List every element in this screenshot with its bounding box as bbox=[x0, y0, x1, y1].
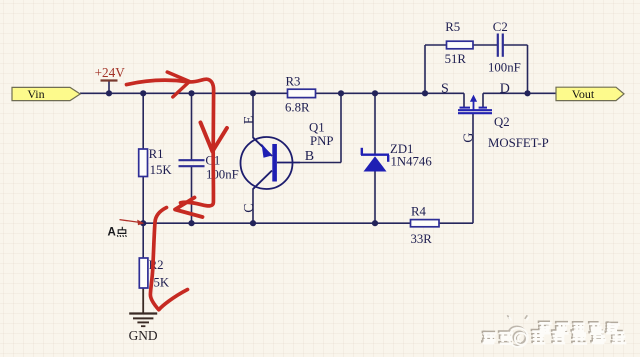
svg-text:+24V: +24V bbox=[95, 65, 126, 80]
svg-text:100nF: 100nF bbox=[488, 61, 521, 75]
svg-text:R1: R1 bbox=[149, 147, 164, 161]
svg-text:5K: 5K bbox=[154, 275, 170, 289]
svg-text:PNP: PNP bbox=[310, 134, 333, 148]
svg-text:D: D bbox=[500, 81, 510, 96]
svg-text:R4: R4 bbox=[411, 205, 427, 219]
svg-text:Vout: Vout bbox=[572, 87, 595, 101]
svg-text:GND: GND bbox=[129, 328, 158, 343]
svg-text:R5: R5 bbox=[445, 20, 460, 34]
svg-text:Q1: Q1 bbox=[309, 121, 325, 135]
svg-text:6.8R: 6.8R bbox=[285, 100, 310, 114]
svg-text:C2: C2 bbox=[493, 20, 508, 34]
svg-text:G: G bbox=[462, 133, 477, 143]
svg-text:S: S bbox=[441, 81, 449, 96]
svg-text:15K: 15K bbox=[150, 163, 173, 177]
svg-text:33R: 33R bbox=[411, 232, 433, 246]
svg-text:Q2: Q2 bbox=[494, 115, 510, 129]
svg-text:Vin: Vin bbox=[27, 87, 44, 101]
svg-text:C: C bbox=[242, 203, 257, 212]
svg-text:100nF: 100nF bbox=[206, 168, 239, 182]
svg-text:A: A bbox=[108, 227, 116, 239]
svg-text:MOSFET-P: MOSFET-P bbox=[488, 136, 549, 150]
svg-text:1N4746: 1N4746 bbox=[391, 154, 433, 168]
svg-text:R3: R3 bbox=[286, 74, 301, 88]
svg-text:E: E bbox=[242, 116, 257, 125]
svg-text:B: B bbox=[305, 149, 314, 164]
svg-text:51R: 51R bbox=[445, 52, 467, 66]
